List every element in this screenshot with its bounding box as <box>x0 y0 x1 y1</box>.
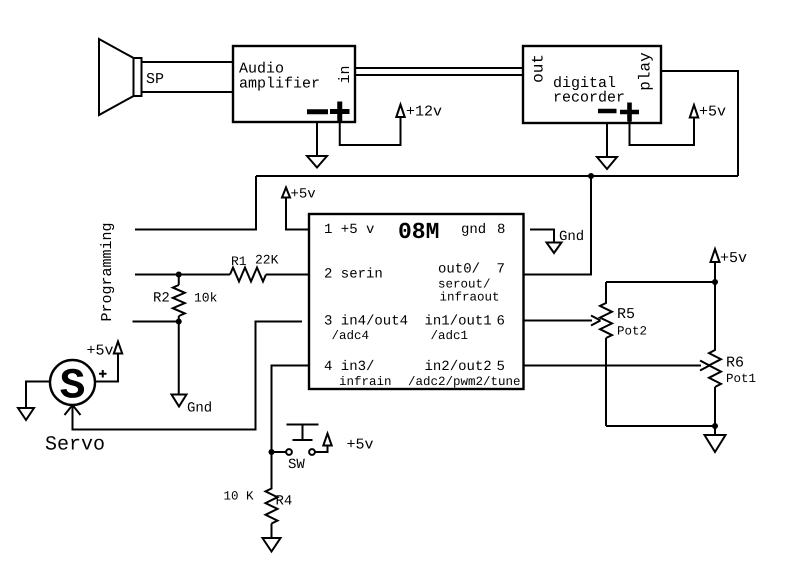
svg-text:SP: SP <box>146 71 164 88</box>
svg-text:Gnd: Gnd <box>187 401 212 417</box>
wire +5v to pin1 <box>286 198 309 230</box>
digital recorder box U-rec <box>523 46 661 123</box>
wire pin6 to R5 wiper <box>523 320 592 322</box>
wire servo to ground <box>26 382 50 409</box>
wire audio cable upper <box>355 67 523 69</box>
switch SW left contact <box>286 449 292 455</box>
svg-text:7: 7 <box>497 262 505 278</box>
svg-text:1 +5 v: 1 +5 v <box>324 222 374 238</box>
ground below recorder <box>597 157 617 169</box>
power arrow +12v <box>396 105 404 118</box>
wire speaker bottom to amplifier <box>142 91 234 93</box>
svg-text:6: 6 <box>497 314 505 330</box>
svg-text:2 serin: 2 serin <box>324 267 383 283</box>
resistor R5 body <box>600 282 612 426</box>
speaker SP cone <box>99 39 134 115</box>
switch SW right contact <box>309 449 315 455</box>
wire serout bus <box>256 175 738 177</box>
svg-text:4 in3/: 4 in3/ <box>324 359 374 375</box>
wire audio cable lower <box>355 74 523 76</box>
svg-text:+5v: +5v <box>699 104 726 121</box>
power arrow +5v recorder <box>690 105 698 118</box>
switch SW actuator <box>287 425 319 441</box>
svg-text:+5v: +5v <box>86 343 113 360</box>
svg-text:+12v: +12v <box>406 104 442 121</box>
wire pot top rail <box>606 281 715 283</box>
svg-text:infraout: infraout <box>440 291 500 305</box>
node pot bottom junction <box>712 423 718 429</box>
ground below amplifier <box>307 156 327 168</box>
servo plus sign <box>99 370 107 378</box>
svg-text:in: in <box>337 65 354 83</box>
wire pin4 down <box>272 366 310 453</box>
node serout junction <box>588 173 594 179</box>
resistor R6 body <box>709 282 721 426</box>
svg-text:R2: R2 <box>153 291 170 307</box>
resistor R2 <box>173 275 185 395</box>
servo input arrowhead <box>65 405 81 415</box>
power arrow +5v switch <box>323 434 331 446</box>
amplifier plus terminal <box>330 102 350 122</box>
svg-text:10 K: 10 K <box>224 490 255 504</box>
svg-text:Pot1: Pot1 <box>726 372 756 386</box>
ground at pin8 <box>547 243 562 254</box>
svg-text:8: 8 <box>497 222 505 238</box>
wire programming middle to R1 <box>135 274 230 276</box>
audio amplifier box U-amp <box>233 46 355 122</box>
recorder minus terminal <box>598 109 617 114</box>
svg-text:play: play <box>637 52 655 91</box>
amplifier minus terminal <box>307 109 328 114</box>
svg-text:22K: 22K <box>255 253 279 268</box>
power arrow +5v servo <box>114 342 122 354</box>
svg-text:5: 5 <box>497 359 505 375</box>
power arrow +5v pin1 <box>282 188 290 198</box>
recorder plus terminal <box>620 103 639 122</box>
resistor R4 <box>266 452 278 538</box>
servo M1 body <box>50 360 95 405</box>
wire switch to +5v <box>315 446 328 452</box>
svg-text:in2/out2: in2/out2 <box>425 359 492 375</box>
svg-text:08M: 08M <box>398 219 439 245</box>
IC U1 08M box <box>309 214 524 389</box>
svg-text:+5v: +5v <box>720 250 747 267</box>
wire R1 to pin2 <box>266 274 309 276</box>
wire programming top <box>135 176 256 230</box>
wire servo to +5v <box>95 354 118 382</box>
wire recorder plus to +5v <box>630 118 695 146</box>
svg-text:SW: SW <box>288 457 305 473</box>
wire speaker top to amplifier <box>142 61 234 63</box>
svg-text:S: S <box>60 362 86 411</box>
svg-text:R6: R6 <box>726 355 744 372</box>
wire bus down to pin7 <box>523 176 591 275</box>
node R2 bottom junction <box>176 319 182 325</box>
node pot top junction <box>712 279 718 285</box>
svg-text:R5: R5 <box>617 306 635 323</box>
wire play to bus <box>661 71 738 176</box>
svg-text:recorder: recorder <box>553 90 625 107</box>
wire pots to ground <box>714 426 716 436</box>
svg-text:+5v: +5v <box>291 187 316 203</box>
svg-text:/adc1: /adc1 <box>431 329 469 343</box>
ground below R2 <box>172 395 187 407</box>
svg-text:in1/out1: in1/out1 <box>425 314 492 330</box>
ground below R4 <box>263 538 281 552</box>
svg-text:R1: R1 <box>231 254 247 269</box>
svg-text:gnd: gnd <box>461 222 486 238</box>
svg-text:infrain: infrain <box>339 375 392 389</box>
R5 wiper arrow <box>591 316 601 326</box>
svg-text:3 in4/out4: 3 in4/out4 <box>324 314 408 330</box>
R6 wiper arrow <box>700 361 710 371</box>
svg-text:out0/: out0/ <box>438 262 480 278</box>
svg-text:amplifier: amplifier <box>239 76 320 93</box>
wire amplifier plus to +12v <box>340 117 401 145</box>
svg-text:/adc4: /adc4 <box>332 329 370 343</box>
svg-text:out: out <box>530 54 548 83</box>
node pin4 junction <box>269 449 275 455</box>
wire junction to switch <box>272 451 287 453</box>
node R2 top junction <box>176 272 182 278</box>
wire recorder minus to ground <box>606 123 608 158</box>
wire pin8 to ground <box>530 230 554 243</box>
ground below pots <box>705 435 726 452</box>
wire servo signal to pin3 <box>73 322 303 430</box>
svg-text:R4: R4 <box>276 494 293 510</box>
wire pin5 to R6 wiper <box>523 365 701 367</box>
resistor R1 <box>230 268 266 282</box>
svg-text:+5v: +5v <box>347 437 374 454</box>
svg-text:Servo: Servo <box>45 434 105 457</box>
wire +5v to pots <box>714 262 716 282</box>
speaker SP driver <box>134 58 142 96</box>
svg-text:serout/: serout/ <box>438 278 491 292</box>
svg-text:Programming: Programming <box>99 222 116 321</box>
svg-text:Gnd: Gnd <box>559 229 584 245</box>
wire programming bottom <box>133 321 179 323</box>
svg-text:Pot2: Pot2 <box>617 325 647 339</box>
wire pot bottom rail <box>606 425 715 427</box>
svg-text:/adc2/pwm2/tune: /adc2/pwm2/tune <box>408 375 521 389</box>
svg-text:10k: 10k <box>194 291 218 306</box>
power arrow +5v pots <box>711 249 720 262</box>
ground at servo <box>18 408 34 420</box>
wire amplifier minus to ground <box>316 122 318 156</box>
